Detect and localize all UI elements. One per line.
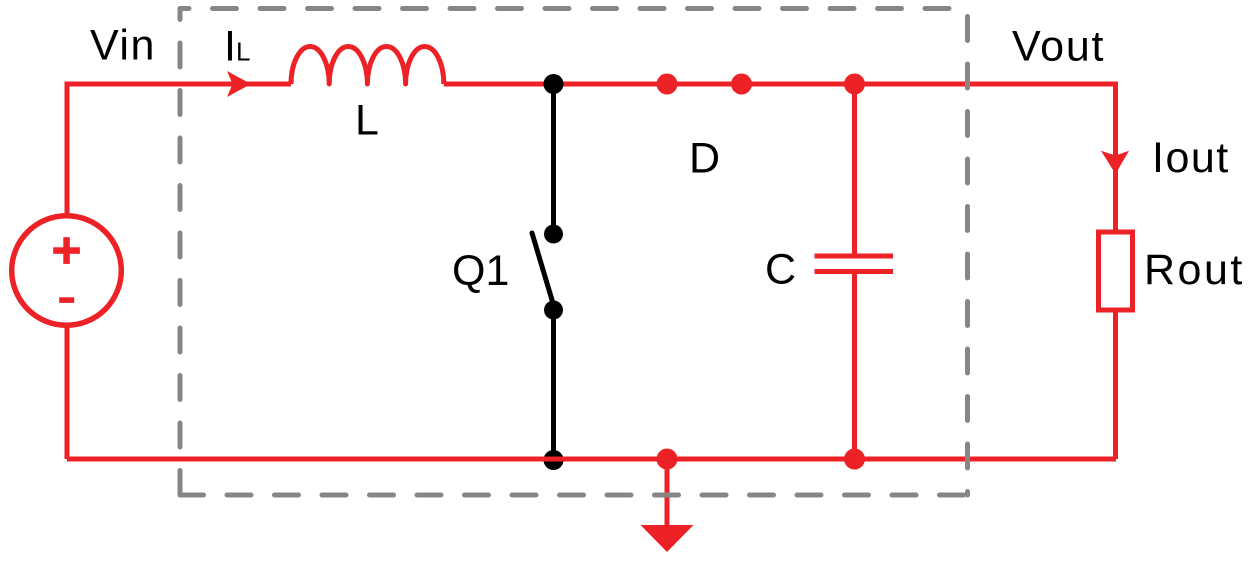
svg-text:Rout: Rout [1144, 246, 1245, 294]
svg-text:Vout: Vout [1012, 23, 1105, 71]
svg-text:Vin: Vin [90, 22, 156, 70]
svg-text:D: D [689, 135, 720, 183]
svg-text:C: C [765, 246, 796, 294]
svg-text:L: L [236, 37, 250, 67]
svg-text:Iout: Iout [1152, 134, 1230, 182]
svg-text:L: L [355, 97, 379, 145]
svg-text:Q1: Q1 [452, 247, 509, 295]
svg-text:I: I [224, 23, 236, 71]
